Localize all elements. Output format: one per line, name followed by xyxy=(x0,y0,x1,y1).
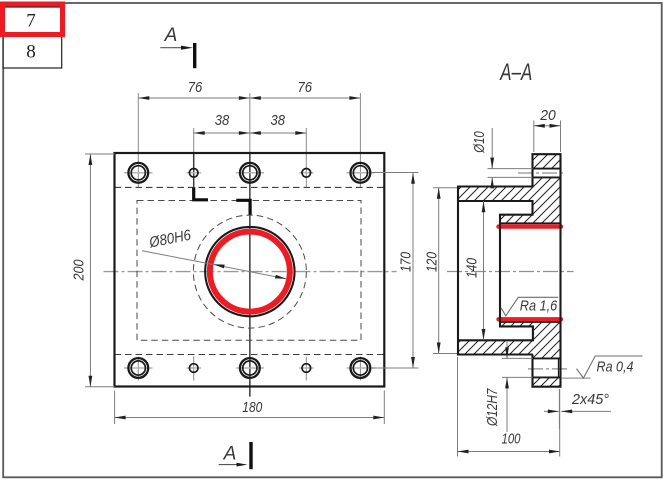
title table row 1 (cell 7, highlighted) xyxy=(3,4,63,35)
svg-text:100: 100 xyxy=(502,431,521,448)
svg-text:38: 38 xyxy=(270,112,285,129)
surface finish Ra 1,6 xyxy=(501,297,559,316)
hidden line (block bottom edge) xyxy=(115,354,385,356)
svg-text:170: 170 xyxy=(398,251,415,272)
bore bottom surface edge xyxy=(500,321,561,323)
cutting plane mark A bottom xyxy=(219,442,251,469)
svg-text:180: 180 xyxy=(242,399,263,416)
red highlight bore bottom surface xyxy=(499,317,562,321)
dimension 200 xyxy=(71,154,115,387)
bottom hole column centerlines xyxy=(138,357,360,381)
cut-line vertical through centre column xyxy=(249,93,251,154)
dimension Ø12H7 xyxy=(484,342,533,432)
svg-text:140: 140 xyxy=(464,257,481,278)
dimension 180 xyxy=(115,391,385,425)
cutting plane mark A top xyxy=(160,25,194,68)
svg-text:A: A xyxy=(164,25,178,46)
hidden line (block top edge) xyxy=(115,186,385,188)
svg-text:120: 120 xyxy=(424,251,441,272)
hole Ø10 edges in section xyxy=(533,169,561,178)
svg-text:76: 76 xyxy=(297,79,312,96)
dimension 38 left xyxy=(194,112,307,135)
bore top surface edge xyxy=(500,222,561,224)
svg-text:Ra 0,4: Ra 0,4 xyxy=(597,359,634,376)
title table row 2 (cell 8) xyxy=(3,35,62,69)
svg-text:Ø10: Ø10 xyxy=(471,131,488,154)
hatch flange mid-lower with shelf xyxy=(500,322,561,358)
svg-text:76: 76 xyxy=(188,79,203,96)
dimension 76 left xyxy=(138,79,360,100)
leader Ø80H6 xyxy=(142,227,286,279)
surface finish Ra 0,4 xyxy=(561,356,643,378)
hatch flange bottom band xyxy=(533,377,561,386)
dimension 140 xyxy=(464,201,486,340)
stepped cutting-plane jog left xyxy=(194,187,208,199)
small hole Ø10 bottom-left xyxy=(189,364,198,373)
bore circle highlight (red) xyxy=(210,232,290,312)
hidden boss circle xyxy=(193,215,306,328)
counterbored hole top-left xyxy=(128,163,148,183)
small hole Ø10 bottom-right xyxy=(302,364,311,373)
dimension 20 xyxy=(534,107,561,152)
hatch block bottom band xyxy=(458,340,533,354)
cut-line vertical through left small-hole column xyxy=(193,128,195,154)
svg-text:38: 38 xyxy=(215,112,230,129)
bore circle Ø80H6 (black) xyxy=(205,227,294,316)
hidden cavity rectangle xyxy=(137,201,361,341)
small hole centerline (Ø12H7) xyxy=(528,368,569,370)
svg-text:200: 200 xyxy=(71,259,88,281)
centerline horizontal (front view) xyxy=(104,271,397,273)
svg-text:20: 20 xyxy=(539,107,556,124)
small hole Ø10 top-right xyxy=(302,169,311,178)
extension line column x=306 xyxy=(305,128,307,187)
hole cross centerlines bottom row xyxy=(124,367,375,369)
svg-text:Ra 1,6: Ra 1,6 xyxy=(520,298,558,315)
svg-text:Ø12H7: Ø12H7 xyxy=(484,388,501,427)
dimension 170 xyxy=(372,173,419,369)
chamfer edge in Ø12H7 hole xyxy=(558,358,560,377)
hatch flange mid-upper with shelf xyxy=(500,177,561,223)
svg-text:Ø80H6: Ø80H6 xyxy=(147,227,193,252)
hatch flange upper xyxy=(533,154,561,168)
dimension 120 xyxy=(424,188,459,354)
dimension Ø10 xyxy=(471,128,533,188)
svg-text:8: 8 xyxy=(26,42,36,63)
cavity / counterbore outline xyxy=(458,201,533,340)
counterbored hole bottom-right xyxy=(351,358,371,378)
red highlight bore top surface xyxy=(499,224,562,228)
dimension 100 xyxy=(458,357,561,457)
svg-text:7: 7 xyxy=(26,11,36,32)
hole Ø12H7 edges in section xyxy=(533,358,561,377)
extension line column x=138 xyxy=(137,93,139,187)
svg-text:A–A: A–A xyxy=(499,59,532,86)
block outline xyxy=(458,187,533,355)
dimension 38 right xyxy=(250,112,306,135)
small hole Ø10 top-left xyxy=(189,169,198,178)
extension line column x=360 xyxy=(359,93,361,187)
plate outline xyxy=(115,153,385,387)
dimension 76 right xyxy=(250,79,361,100)
section centerline horizontal xyxy=(447,271,574,273)
small hole centerline (Ø10) xyxy=(518,172,566,174)
dimension 2x45 chamfer xyxy=(544,389,611,429)
hole cross centerlines top row xyxy=(124,172,375,174)
flange outline xyxy=(533,154,561,387)
hatch block top band xyxy=(458,187,533,202)
counterbored hole top-centre xyxy=(240,163,260,183)
svg-text:2x45°: 2x45° xyxy=(571,391,609,408)
counterbored hole bottom-centre xyxy=(240,358,260,378)
stepped cutting-plane jog right xyxy=(236,200,250,214)
counterbored hole top-right xyxy=(351,163,371,183)
svg-text:A: A xyxy=(223,444,237,465)
counterbored hole bottom-left xyxy=(128,358,148,378)
